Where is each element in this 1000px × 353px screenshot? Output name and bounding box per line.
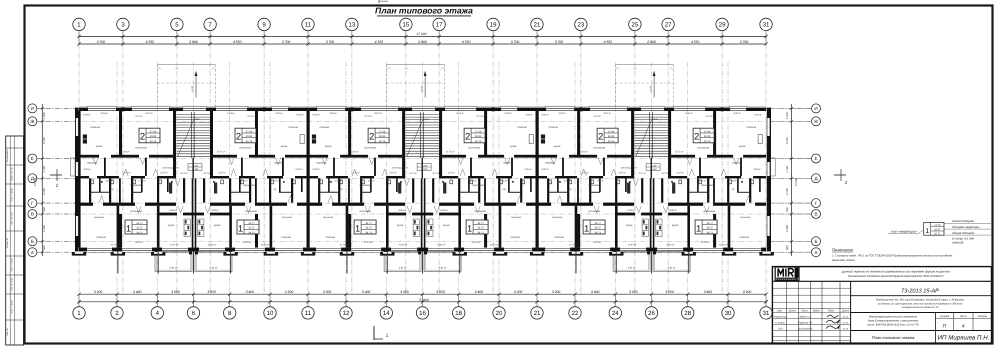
svg-text:900: 900 bbox=[43, 207, 46, 212]
svg-text:Б: Б bbox=[31, 239, 34, 244]
svg-text:Справ. №: Справ. № bbox=[6, 237, 9, 248]
svg-text:В: В bbox=[814, 212, 817, 217]
svg-text:30: 30 bbox=[725, 310, 732, 317]
svg-text:дома Благоустроенного и секцио: дома Благоустроенного и секционного bbox=[868, 320, 919, 323]
svg-text:3 700: 3 700 bbox=[97, 40, 106, 44]
svg-text:2 800: 2 800 bbox=[188, 40, 198, 44]
svg-text:11 900: 11 900 bbox=[34, 177, 37, 186]
svg-text:21: 21 bbox=[534, 22, 541, 29]
svg-text:жилая площадь: жилая площадь bbox=[951, 219, 974, 223]
svg-text:3 400: 3 400 bbox=[246, 290, 255, 294]
svg-text:2 300: 2 300 bbox=[786, 225, 789, 233]
svg-text:2 130: 2 130 bbox=[43, 188, 46, 196]
svg-text:Подп.: Подп. bbox=[828, 310, 835, 313]
svg-text:4: 4 bbox=[962, 324, 965, 330]
svg-text:План типового этажа: План типового этажа bbox=[375, 6, 473, 16]
svg-text:Согласовано: Согласовано bbox=[6, 149, 9, 163]
svg-text:1: 1 bbox=[386, 333, 389, 339]
svg-text:4 550: 4 550 bbox=[233, 40, 242, 44]
svg-text:3 130: 3 130 bbox=[786, 137, 789, 144]
svg-text:Примечание:: Примечание: bbox=[832, 248, 854, 252]
svg-text:3 700: 3 700 bbox=[740, 40, 749, 44]
svg-text:14.73: 14.73 bbox=[934, 224, 941, 227]
svg-text:Изм: Изм bbox=[777, 310, 782, 313]
svg-text:Разработал: Разработал bbox=[774, 315, 788, 318]
svg-text:Ж: Ж bbox=[30, 119, 35, 124]
svg-text:П: П bbox=[943, 324, 947, 330]
svg-text:20: 20 bbox=[496, 310, 503, 317]
svg-text:1 720: 1 720 bbox=[43, 166, 46, 173]
svg-text:4 550: 4 550 bbox=[462, 40, 471, 44]
svg-text:Инв. № подл.: Инв. № подл. bbox=[10, 211, 13, 225]
svg-text:ГАП: ГАП bbox=[778, 327, 783, 330]
svg-text:лоджий): лоджий) bbox=[951, 240, 963, 244]
svg-text:3 050: 3 050 bbox=[665, 290, 674, 294]
svg-text:Крылова В.В.: Крылова В.В. bbox=[798, 327, 813, 330]
svg-text:900: 900 bbox=[786, 207, 789, 212]
svg-text:Е: Е bbox=[31, 156, 34, 161]
svg-text:3 050: 3 050 bbox=[207, 290, 216, 294]
svg-text:Е: Е bbox=[814, 156, 817, 161]
svg-text:3 700: 3 700 bbox=[555, 40, 564, 44]
svg-text:13: 13 bbox=[349, 22, 356, 29]
svg-text:Зубов С.А.: Зубов С.А. bbox=[800, 315, 812, 318]
svg-text:19: 19 bbox=[490, 22, 497, 29]
svg-text:25: 25 bbox=[632, 22, 639, 29]
svg-text:площадь квартиры: площадь квартиры bbox=[952, 225, 980, 229]
svg-text:1 100: 1 100 bbox=[786, 112, 789, 119]
svg-text:общая площадь: общая площадь bbox=[952, 231, 975, 235]
svg-text:Стадия: Стадия bbox=[940, 315, 950, 318]
svg-text:34.71: 34.71 bbox=[934, 233, 941, 236]
svg-text:3 200: 3 200 bbox=[552, 290, 561, 294]
svg-text:Многоквартирные жилые помещени: Многоквартирные жилые помещения bbox=[869, 316, 918, 319]
svg-text:28: 28 bbox=[684, 310, 691, 317]
svg-text:11 900: 11 900 bbox=[795, 177, 798, 186]
svg-text:3 050: 3 050 bbox=[436, 290, 445, 294]
svg-text:Подп. и дата: Подп. и дата bbox=[10, 299, 13, 313]
svg-text:письменного согласия Архитекту: письменного согласия Архитектурной масте… bbox=[848, 274, 945, 278]
svg-text:11: 11 bbox=[305, 310, 312, 317]
svg-text:900: 900 bbox=[43, 245, 46, 250]
svg-text:2: 2 bbox=[56, 183, 59, 188]
svg-text:73-2013 15-АР: 73-2013 15-АР bbox=[901, 288, 939, 294]
svg-text:ИП Миряшев П.Н.: ИП Миряшев П.Н. bbox=[938, 335, 990, 342]
svg-text:16: 16 bbox=[419, 310, 426, 317]
svg-text:Инв. №: Инв. № bbox=[6, 328, 9, 336]
svg-text:3 050: 3 050 bbox=[400, 290, 409, 294]
svg-text:3 200: 3 200 bbox=[514, 290, 523, 294]
svg-text:2 130: 2 130 bbox=[786, 188, 789, 196]
svg-text:Данный чертеж не подлежит разм: Данный чертеж не подлежит размножению ил… bbox=[841, 269, 951, 273]
svg-text:11: 11 bbox=[305, 22, 312, 29]
svg-text:3 400: 3 400 bbox=[704, 290, 713, 294]
svg-text:5: 5 bbox=[175, 22, 179, 29]
svg-text:12.13: 12.13 bbox=[842, 315, 848, 318]
svg-text:Лист: Лист bbox=[800, 310, 807, 313]
svg-text:1: 1 bbox=[925, 228, 929, 235]
svg-text:24: 24 bbox=[612, 310, 619, 317]
svg-text:Подп. и дата: Подп. и дата bbox=[10, 257, 13, 271]
svg-text:3 700: 3 700 bbox=[326, 40, 335, 44]
svg-text:12: 12 bbox=[343, 310, 350, 317]
svg-text:Инв. № дубл.: Инв. № дубл. bbox=[10, 277, 13, 291]
svg-text:3 200: 3 200 bbox=[94, 290, 103, 294]
svg-text:3 050: 3 050 bbox=[629, 290, 638, 294]
svg-text:Лист: Лист bbox=[959, 315, 966, 318]
svg-text:4 550: 4 550 bbox=[691, 40, 700, 44]
svg-text:1. Согласно табл. П5-1 из ГОСТ: 1. Согласно табл. П5-1 из ГОСТ 53254-200… bbox=[832, 253, 952, 257]
svg-text:3 400: 3 400 bbox=[362, 290, 371, 294]
svg-text:Б: Б bbox=[814, 239, 817, 244]
svg-text:17 900: 17 900 bbox=[417, 32, 427, 36]
svg-text:3 700: 3 700 bbox=[511, 40, 520, 44]
svg-text:2: 2 bbox=[845, 180, 848, 185]
svg-text:План типового этажа: План типового этажа bbox=[872, 335, 915, 340]
svg-text:И: И bbox=[31, 106, 34, 111]
svg-text:№док: №док bbox=[813, 310, 820, 313]
svg-text:22: 22 bbox=[572, 310, 579, 317]
svg-text:29: 29 bbox=[719, 22, 726, 29]
svg-text:3 130: 3 130 bbox=[43, 137, 46, 144]
svg-text:3: 3 bbox=[121, 22, 125, 29]
svg-text:27: 27 bbox=[665, 22, 672, 29]
svg-text:ул.Лакина, ул. Центральная, уч: ул.Лакина, ул. Центральная, участок нахо… bbox=[877, 302, 963, 305]
svg-text:23: 23 bbox=[578, 22, 585, 29]
svg-text:Кол.уч: Кол.уч bbox=[789, 310, 797, 313]
svg-text:17: 17 bbox=[436, 22, 443, 29]
svg-text:Дата: Дата bbox=[841, 310, 849, 313]
svg-text:8: 8 bbox=[228, 310, 232, 317]
svg-text:(верхнем) этаже.: (верхнем) этаже. bbox=[832, 258, 856, 262]
svg-text:3 200: 3 200 bbox=[323, 290, 332, 294]
svg-text:Взам. инв. №: Взам. инв. № bbox=[10, 167, 13, 181]
svg-text:57 960: 57 960 bbox=[419, 298, 429, 302]
svg-text:3 050: 3 050 bbox=[171, 290, 180, 294]
svg-text:14: 14 bbox=[383, 310, 390, 317]
svg-text:Н. контр.: Н. контр. bbox=[775, 321, 786, 324]
svg-text:15: 15 bbox=[403, 22, 410, 29]
svg-text:900: 900 bbox=[786, 245, 789, 250]
svg-text:31: 31 bbox=[763, 310, 770, 317]
svg-text:33.57: 33.57 bbox=[934, 228, 941, 231]
svg-text:4 552: 4 552 bbox=[375, 40, 384, 44]
svg-text:Лифанов Г.А.: Лифанов Г.А. bbox=[797, 321, 813, 324]
svg-text:26: 26 bbox=[648, 310, 655, 317]
svg-text:12.13: 12.13 bbox=[842, 327, 848, 330]
svg-text:4 552: 4 552 bbox=[604, 40, 613, 44]
svg-text:3 200: 3 200 bbox=[743, 290, 752, 294]
svg-text:3 400: 3 400 bbox=[475, 290, 484, 294]
svg-text:Подп. и дата: Подп. и дата bbox=[10, 187, 13, 201]
svg-text:3 400: 3 400 bbox=[133, 290, 142, 294]
svg-text:2 800: 2 800 bbox=[417, 40, 427, 44]
svg-text:21: 21 bbox=[534, 310, 541, 317]
svg-text:1 720: 1 720 bbox=[786, 166, 789, 173]
svg-text:И: И bbox=[814, 106, 817, 111]
svg-text:3 200: 3 200 bbox=[285, 290, 294, 294]
svg-text:В: В bbox=[31, 212, 34, 217]
svg-text:Владимирская обл., МО город Вл: Владимирская обл., МО город Владимир, За… bbox=[876, 299, 965, 302]
svg-text:2 800: 2 800 bbox=[646, 40, 656, 44]
svg-text:типа. ЖИЛОЙ ДОМ №15 (поз. 10 п: типа. ЖИЛОЙ ДОМ №15 (поз. 10 по ГП) bbox=[867, 323, 918, 327]
svg-text:10: 10 bbox=[267, 310, 274, 317]
svg-text:3 700: 3 700 bbox=[282, 40, 291, 44]
svg-text:Листов: Листов bbox=[977, 315, 988, 318]
svg-text:31: 31 bbox=[763, 22, 770, 29]
svg-text:1 100: 1 100 bbox=[43, 112, 46, 119]
svg-text:18: 18 bbox=[455, 310, 462, 317]
svg-text:неограничении по запад от 25: неограничении по запад от 25 bbox=[902, 306, 939, 309]
svg-text:12.13: 12.13 bbox=[842, 321, 848, 324]
svg-text:2 300: 2 300 bbox=[43, 225, 46, 233]
svg-text:3 400: 3 400 bbox=[591, 290, 600, 294]
svg-text:тип «квартиры»: тип «квартиры» bbox=[891, 230, 917, 234]
svg-text:4 552: 4 552 bbox=[146, 40, 155, 44]
